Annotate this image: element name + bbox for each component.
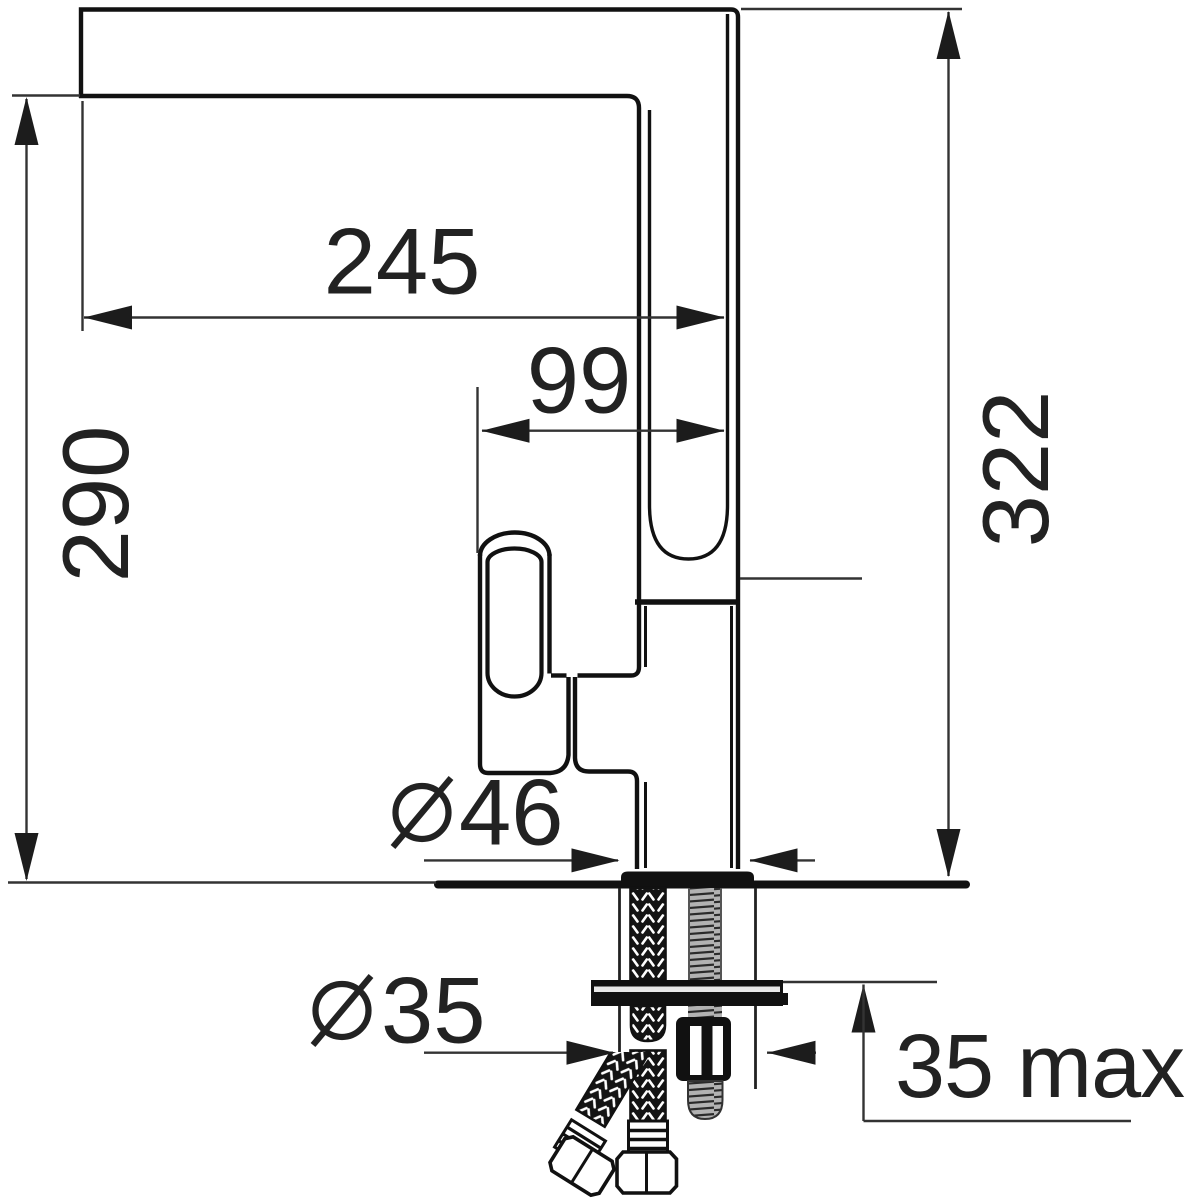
dimension 290: bottom arrowhead [15, 833, 39, 881]
base flange [621, 872, 754, 887]
dimension 322: bottom arrowhead [937, 829, 961, 877]
dimension 35max: up arrowhead [852, 985, 876, 1033]
threaded stud end below standoff [688, 1081, 723, 1119]
neck right line and lower-left body edge [575, 677, 637, 869]
dimension 35max: bottom elbow line [864, 1120, 1132, 1122]
standoff hex nut on stud [676, 1017, 731, 1081]
dimension 99: left arrowhead [482, 419, 530, 443]
dimension D46: right dim line [750, 859, 815, 861]
dimension D35: left dim line [424, 1051, 613, 1053]
svg-text:46: 46 [459, 760, 564, 865]
dimension 290: top extension line [12, 94, 80, 96]
countertop thin line (left) [8, 881, 436, 883]
dimension D46: label diameter symbol [396, 786, 449, 839]
threaded stud stub below plate [688, 1006, 722, 1017]
dimension 35max: top extension line [783, 981, 937, 983]
neck left line, lever base bottom, handle left edge [480, 554, 569, 773]
dimension 245: left extension line [81, 101, 83, 331]
svg-text:99: 99 [527, 328, 632, 433]
handle right edge [547, 554, 551, 674]
dimension D35: label diameter symbol [316, 984, 369, 1037]
cutout top line segment to handle [551, 673, 567, 677]
dimension 245: dim line [84, 316, 724, 318]
dimension D35: right arrowhead [768, 1041, 816, 1065]
inner thin line right below seam [730, 606, 733, 868]
inner thin line left below seam upper [644, 606, 647, 667]
mounting washer and nut plate [591, 980, 783, 1006]
braided hose between deck and plate [631, 888, 666, 980]
dimension 99: right arrowhead [677, 419, 725, 443]
dimension 322: top arrowhead [937, 11, 961, 59]
hose stub below plate [631, 1006, 665, 1041]
dimension 322: vertical dim line [947, 12, 949, 876]
spout underside and upper-left body edge [79, 96, 639, 676]
dimension D46: right arrowhead [750, 848, 798, 872]
svg-text:35 max: 35 max [895, 1017, 1185, 1117]
spout top arm and right edge of body (outer outline) [81, 10, 738, 870]
threaded stud between deck and plate [688, 888, 722, 980]
svg-text:35: 35 [381, 958, 486, 1063]
dimension 99: left extension line [476, 387, 478, 553]
pull-out wand inner contour (U channel) [650, 14, 728, 559]
dimension 35max: vertical line [862, 985, 864, 1122]
collar rings on vertical hose [629, 1121, 668, 1157]
diagonal hose with collar and nut [576, 1034, 650, 1126]
dimension 99: dim line [482, 430, 724, 432]
handle cap outer dome [480, 533, 550, 557]
handle inner capsule contour [488, 549, 542, 697]
mounting tube line left below deck [618, 888, 621, 1062]
svg-text:290: 290 [43, 426, 148, 583]
dimension 322: top extension line [741, 8, 962, 10]
dimension 290: top arrowhead [15, 97, 39, 145]
body seam line [635, 599, 740, 605]
dimension 245: right arrowhead [677, 306, 725, 330]
dimension 245: left arrowhead [84, 306, 132, 330]
inner thin line left below cutout [644, 782, 647, 868]
dimension D35: left arrowhead [567, 1041, 615, 1065]
dimension 290: vertical dim line [25, 99, 27, 879]
svg-text:245: 245 [324, 209, 481, 314]
svg-text:322: 322 [963, 391, 1068, 548]
mounting tube line right below deck [754, 888, 757, 1089]
dimension D46: left arrowhead [572, 848, 620, 872]
countertop thick line [438, 881, 966, 889]
hex nut on vertical hose [617, 1152, 677, 1193]
dimension D35: right dim line [767, 1051, 816, 1053]
leader line right of body [740, 577, 862, 579]
lower vertical hose [631, 1051, 666, 1123]
dimension D46: left dim line [424, 859, 618, 861]
